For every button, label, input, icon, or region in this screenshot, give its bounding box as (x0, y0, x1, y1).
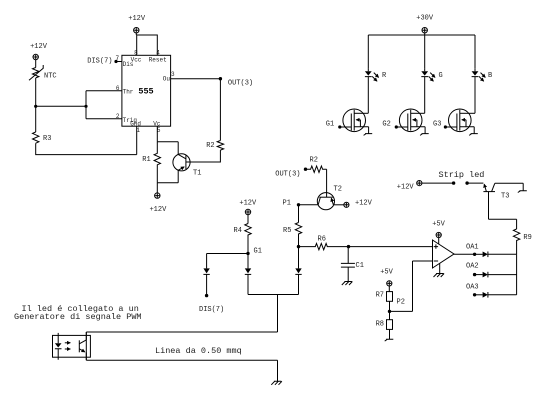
wire branch R (367, 35, 369, 69)
node junction NTC/R3/555 (34, 105, 37, 108)
power +12V (NTC branch) (30, 43, 48, 68)
wire +12V to connector pin (422, 182, 454, 184)
svg-text:OA3: OA3 (466, 284, 479, 292)
diode D3 (295, 268, 301, 274)
svg-text:OUT(3): OUT(3) (228, 79, 253, 87)
ground (R8) (385, 339, 394, 341)
node DIS(7) terminal (87, 57, 122, 65)
svg-text:R: R (382, 72, 387, 80)
svg-text:G1: G1 (326, 121, 334, 129)
svg-text:NTC: NTC (44, 73, 57, 81)
svg-text:G2: G2 (382, 121, 390, 129)
resistor R8 (376, 311, 393, 339)
svg-text:Reset: Reset (149, 56, 167, 63)
resistor R1 (142, 142, 160, 183)
ground (C1) (342, 282, 353, 286)
svg-text:T3: T3 (501, 193, 509, 201)
op-amp U2 (433, 240, 455, 268)
wire T3 collector to terminal (495, 183, 523, 191)
resistor R5 (283, 223, 302, 247)
wire 555 pin3 to OUT node (171, 78, 221, 80)
svg-text:OA2: OA2 (466, 263, 479, 271)
svg-text:6: 6 (116, 85, 120, 92)
wire R5 node to diode D3 (298, 247, 300, 269)
svg-text:R8: R8 (376, 321, 384, 329)
svg-text:2: 2 (116, 113, 120, 120)
wire diode bus (248, 294, 299, 296)
svg-text:R9: R9 (523, 234, 531, 242)
power +12V (555) (128, 15, 146, 35)
svg-text:C1: C1 (356, 262, 364, 270)
svg-text:+12V: +12V (397, 183, 415, 191)
svg-text:4: 4 (156, 49, 160, 56)
node P1 (283, 200, 301, 208)
power +12V (T2) (344, 200, 373, 208)
wire branch G (424, 35, 426, 69)
svg-text:R7: R7 (376, 292, 384, 300)
wire 555 pins 8,4 to +12V (137, 35, 158, 55)
wire op-amp output to OA1 (454, 253, 475, 255)
svg-text:555: 555 (138, 87, 153, 97)
power +12V (T1) (149, 193, 167, 214)
node OA2 (466, 263, 479, 277)
svg-text:T2: T2 (334, 186, 342, 194)
wire OA common vertical (516, 254, 518, 294)
wire cable bottom to ground (277, 360, 279, 381)
svg-text:Dis: Dis (123, 61, 134, 68)
diode OA2 (475, 272, 517, 278)
node P2 (388, 299, 405, 314)
svg-text:3: 3 (171, 71, 175, 78)
svg-text:DIS(7): DIS(7) (199, 306, 224, 314)
wire P2 to op-amp minus (390, 310, 413, 312)
label note PWM (14, 304, 142, 322)
LED G (421, 69, 442, 114)
LED R (365, 69, 387, 114)
svg-text:Generatore di segnale PWM: Generatore di segnale PWM (14, 312, 142, 322)
svg-text:Linea da 0.50 mmq: Linea da 0.50 mmq (155, 346, 242, 356)
op-amp 555 IC U1 (122, 55, 171, 127)
transistor T1 (173, 154, 202, 183)
wire D1 to DIS(7) terminal (206, 274, 208, 295)
resistor R6 (299, 236, 349, 250)
node OUT(3) (219, 77, 253, 87)
LED (optocoupler) (55, 333, 62, 360)
svg-text:R2: R2 (206, 142, 214, 150)
svg-text:OUT(3): OUT(3) (275, 171, 300, 179)
wire cable bottom (86, 359, 277, 361)
wire +30V bus (368, 34, 475, 36)
wire R2 to T2 (326, 169, 328, 197)
node connector pin 2 (465, 181, 468, 184)
svg-text:T1: T1 (193, 170, 201, 178)
svg-text:P1: P1 (283, 200, 291, 208)
ground (cable) (271, 381, 282, 385)
svg-text:P2: P2 (397, 299, 405, 307)
svg-text:R5: R5 (283, 227, 291, 235)
wire D2 to bus (247, 274, 249, 294)
node DIS(7) second terminal (199, 294, 224, 314)
wire OUT node to R2 (219, 79, 221, 141)
wire connector to T3 (467, 182, 483, 184)
svg-text:Thr: Thr (123, 89, 134, 96)
wire G1 node left (207, 253, 248, 255)
node OA3 (466, 284, 479, 297)
power +30V (416, 15, 434, 35)
wire R3 to bottom rail (36, 143, 137, 154)
resistor R3 (33, 132, 52, 143)
wire Thr/Trig stub (84, 91, 122, 119)
svg-text:+12V: +12V (128, 15, 146, 23)
wire 555 pin1 to bottom rail (136, 126, 138, 154)
wire D3 to bus (298, 274, 300, 294)
wire cable top (86, 331, 277, 333)
transistor T2 (317, 186, 342, 210)
wire P1 to R5 (298, 205, 300, 223)
thermistor NTC (29, 65, 57, 81)
power +12V (R4) (239, 200, 257, 224)
wire branch B (474, 35, 476, 69)
diode OA3 (475, 292, 517, 298)
node OA1 (466, 243, 479, 256)
resistor R2 (206, 141, 223, 151)
node R5/R6 junction (297, 245, 300, 248)
wire down to diode D1 (206, 254, 208, 269)
diode D1 (203, 268, 209, 274)
transistor G3 (MOSFET) (433, 109, 478, 135)
wire 555 pin5 down (157, 126, 178, 154)
wire T2 emitter to +12V (333, 204, 343, 206)
svg-text:B: B (488, 72, 492, 80)
power +5V (R7) (380, 269, 393, 292)
wire R2 to T1 base (186, 150, 221, 162)
transistor G2 (MOSFET) (382, 109, 428, 135)
diode D2 (245, 268, 251, 274)
optocoupler U3 box (53, 335, 91, 357)
node connector pin 1 (452, 181, 455, 184)
svg-text:+5V: +5V (380, 269, 393, 277)
svg-text:+30V: +30V (416, 15, 434, 23)
resistor R9 (513, 229, 531, 254)
diode OA1 (475, 252, 517, 258)
svg-text:R6: R6 (318, 236, 326, 244)
light arrows (optocoupler) (65, 342, 71, 344)
power +5V (op-amp) (432, 221, 445, 245)
transistor G1 (MOSFET) (326, 109, 372, 135)
node R6/C1 junction (347, 245, 350, 248)
wire cable left edge (85, 332, 87, 360)
wire junction to Thr/Trig stub (36, 105, 86, 107)
wire T3 emitter to R9 (489, 192, 517, 229)
transistor T3 (483, 183, 509, 200)
ground (op-amp) (434, 264, 445, 278)
svg-text:OA1: OA1 (466, 243, 479, 251)
svg-text:R1: R1 (142, 156, 150, 164)
svg-text:8: 8 (134, 49, 138, 56)
phototransistor (optocoupler) (79, 332, 86, 360)
svg-text:G1: G1 (254, 248, 262, 256)
svg-text:R4: R4 (234, 227, 242, 235)
LED B (472, 69, 493, 114)
wire R6 to op-amp (349, 246, 433, 248)
wire T1 emitter / R1 to +12V (157, 183, 178, 193)
wire R7 to P2 (389, 301, 391, 311)
svg-text:R2: R2 (310, 157, 318, 165)
svg-text:R3: R3 (43, 135, 51, 143)
power +12V (strip) (397, 181, 422, 192)
wire junction to R3 (35, 106, 37, 132)
svg-text:+12V: +12V (30, 43, 48, 51)
terminal (T3) (518, 191, 527, 193)
svg-text:G: G (439, 72, 443, 80)
node G1 (246, 248, 262, 256)
svg-text:+12V: +12V (355, 200, 373, 208)
wire G1 to diode D2 (247, 254, 249, 269)
resistor R2 (T2 base) (306, 157, 327, 173)
svg-text:+12V: +12V (239, 200, 257, 208)
resistor R4 (234, 224, 252, 254)
svg-text:DIS(7): DIS(7) (87, 57, 112, 65)
svg-text:+12V: +12V (149, 206, 167, 214)
resistor R7 (376, 292, 393, 302)
capacitor C1 (341, 247, 364, 282)
wire bus down to cable (277, 295, 279, 333)
svg-text:+5V: +5V (432, 221, 445, 229)
wire op-amp minus input (413, 261, 433, 311)
wire NTC to junction (35, 78, 37, 106)
svg-text:Strip led: Strip led (439, 170, 485, 180)
svg-text:G3: G3 (433, 121, 441, 129)
node OUT(3) second terminal (275, 168, 307, 179)
wire T2 collector to P1 (299, 204, 319, 206)
svg-text:Ou: Ou (163, 76, 171, 83)
